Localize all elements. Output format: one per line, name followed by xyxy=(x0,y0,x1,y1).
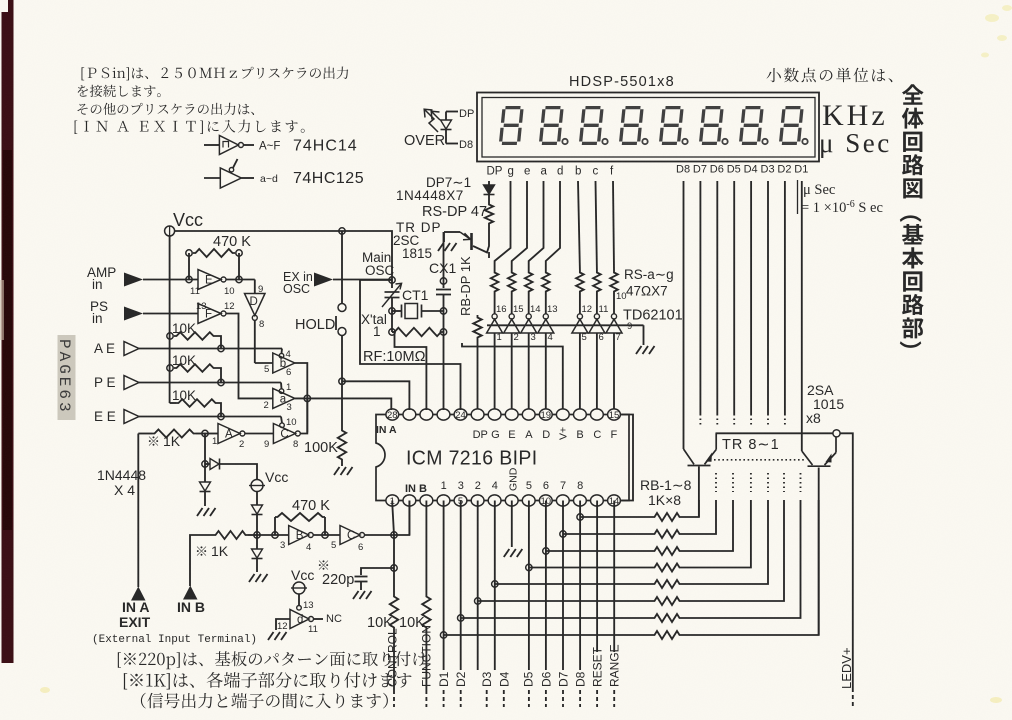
terminal IN A EXIT xyxy=(131,587,146,601)
wire DP diode to RS-DP xyxy=(488,195,490,202)
wire 10K-2 right xyxy=(216,368,221,383)
wire RB-7 right xyxy=(682,500,801,618)
wire digit common D6 dotted tail xyxy=(716,414,718,425)
IC pin 20 (top) xyxy=(522,409,535,420)
display digit 3 decimal point xyxy=(602,139,607,144)
gate d enable bubble xyxy=(297,606,302,611)
wire 220p to ground xyxy=(360,582,362,591)
wire gate D output down xyxy=(254,320,256,363)
wire RS-b to buffer xyxy=(579,294,581,314)
junction 470K-2 left xyxy=(272,532,278,538)
gate C2 bubble xyxy=(360,533,365,538)
vertical title char 路 xyxy=(902,154,924,175)
vertical title char 体 xyxy=(902,108,924,129)
legend inverter bubble xyxy=(238,143,243,148)
gate F 74HC14 xyxy=(198,304,221,324)
wire 470K left leg xyxy=(188,253,190,280)
dash tail D4 xyxy=(503,690,505,707)
TD62101 driver G triangle xyxy=(487,319,503,333)
ground gate d xyxy=(268,632,287,640)
wire hold column lower xyxy=(341,336,343,429)
wire Vcc pull column xyxy=(169,236,171,403)
resistor RB-1 1K xyxy=(652,513,682,521)
junction 220p node xyxy=(391,565,397,571)
wire RANGE column xyxy=(613,501,615,653)
wire TD62101 C output to IC pin xyxy=(596,333,598,410)
dash tail RESET xyxy=(596,690,598,707)
display digit 8 decimal point xyxy=(802,139,807,144)
junction diode node xyxy=(202,461,208,467)
HOLD switch top contact xyxy=(338,304,346,312)
display digit 5 "8" xyxy=(661,108,683,144)
wire GND pin column xyxy=(511,501,513,548)
resistor RB-5 1K xyxy=(652,580,682,588)
wire PS to gate F xyxy=(143,313,198,315)
TD62101 driver E triangle xyxy=(504,319,520,333)
bottom note line3 xyxy=(141,693,388,709)
OVER led anode stub xyxy=(445,112,447,121)
bottom note line1 xyxy=(118,651,426,669)
wire gate d output NC xyxy=(313,618,323,620)
wire segment g from display xyxy=(495,181,511,270)
wire RB-1 left xyxy=(580,516,652,518)
wire RESET column xyxy=(596,501,598,653)
wire segment e from display xyxy=(512,181,527,270)
dotted base stub x=716 xyxy=(715,473,717,492)
dotted line TR8 to TR1 xyxy=(714,459,804,461)
wire segment c from display xyxy=(596,181,597,270)
wire control resistor tail xyxy=(393,630,395,690)
wire digit common D5 dotted tail xyxy=(733,414,735,425)
wire control column xyxy=(393,535,395,594)
vertical title char 本 xyxy=(902,247,924,268)
wire gate A to gate C xyxy=(245,433,274,435)
resistor RS-b 47ohm xyxy=(576,270,584,294)
IC pin 12 (bottom) xyxy=(574,495,587,506)
wire TD62101 E output to IC pin xyxy=(511,333,513,410)
junction 10K-1 left xyxy=(167,333,173,339)
resistor RB-3 1K xyxy=(652,547,682,555)
wire RB-1 right xyxy=(682,500,699,517)
display digit 5 decimal point xyxy=(682,139,687,144)
wire gate D to gate b xyxy=(255,362,273,364)
wire RB-6 left xyxy=(478,600,652,602)
wire hold column upper xyxy=(341,231,343,304)
junction RB-7 at column xyxy=(458,615,464,621)
vertical title char 全 xyxy=(902,84,924,105)
wire digit common D1 column xyxy=(801,181,803,451)
junction RB-4 at column xyxy=(526,564,532,570)
junction Vcc rail / hold line xyxy=(339,228,345,234)
wire gate B to gate C2 xyxy=(313,534,340,536)
legend buffer enable bubble xyxy=(229,168,233,172)
junction gate E input xyxy=(186,276,192,282)
junction RB-6 at column xyxy=(475,598,481,604)
gate a enable bubble xyxy=(279,389,284,394)
junction 10K-3 to EE xyxy=(218,413,224,419)
vertical title char 回 xyxy=(903,132,922,152)
IC pin 15 (top) xyxy=(608,409,621,420)
wire D3 column xyxy=(477,501,479,671)
resistor 10K-2 xyxy=(174,364,216,372)
wire CX1 to xtal right node xyxy=(443,295,445,333)
wire INB terminal column xyxy=(190,535,213,586)
IC pin 10 (bottom) xyxy=(539,495,552,506)
wire RB-4 left xyxy=(529,567,652,569)
resistor 10K-1 xyxy=(174,332,216,340)
gate B bubble xyxy=(308,533,313,538)
IC pin 13 (bottom) xyxy=(591,495,604,506)
dotted base stub x=768 xyxy=(767,473,769,492)
wire RS-e to buffer xyxy=(511,294,513,314)
IC pin 9 (bottom) xyxy=(522,495,535,506)
dash tail D6 xyxy=(545,690,547,707)
wire gate d input from ground xyxy=(276,619,290,630)
wire segment f from display xyxy=(613,181,614,270)
legend buffer output wire xyxy=(241,177,254,179)
vertical title char paren ） xyxy=(900,341,922,348)
gate C 74HC14 xyxy=(273,424,295,444)
IC pin 3 (bottom) xyxy=(420,495,433,506)
vertical title char 回 xyxy=(903,271,922,291)
dash tail D8 xyxy=(579,690,581,707)
TD62101 driver A triangle xyxy=(521,319,537,333)
OVER led cathode stub xyxy=(445,130,447,144)
PAGE63 page marker highlight xyxy=(58,335,76,420)
wire function column top xyxy=(425,501,427,595)
gate d bubble xyxy=(309,617,314,622)
wire 1K to junction xyxy=(196,433,205,435)
resistor RB-8 1K xyxy=(652,631,682,639)
IC pin 16 (top) xyxy=(591,409,604,420)
wire RB-7 left xyxy=(461,617,652,619)
TD62101 driver B bubble xyxy=(577,314,582,319)
junction 470K right top xyxy=(236,250,242,256)
TR8 base wire to RB-1 xyxy=(698,467,700,518)
TD62101 driver C triangle xyxy=(589,319,605,333)
resistor RB-4 1K xyxy=(652,564,682,572)
display digit 2 "8" xyxy=(541,108,563,144)
vertical title char 基 xyxy=(902,224,924,245)
OVER led arrows xyxy=(424,109,438,132)
dash tail D2 xyxy=(460,690,462,707)
wire 10K-3 right xyxy=(218,403,221,417)
resistor RS-d 47ohm xyxy=(542,270,550,294)
note line1 PSin xyxy=(82,67,349,81)
TD62101 driver E bubble xyxy=(509,314,514,319)
diode 1N4448 b xyxy=(200,482,211,491)
dash tail RANGE xyxy=(613,690,615,707)
wire AE row xyxy=(139,348,282,350)
resistor 10K function xyxy=(422,594,430,630)
gate A bubble xyxy=(240,431,245,436)
junction RF right xyxy=(440,329,446,335)
dash tail FUNCTION xyxy=(425,690,427,707)
bottom note line2 xyxy=(124,672,412,690)
wire TD62101 B output to IC pin xyxy=(579,333,581,410)
IC pin 17 (top) xyxy=(574,409,587,420)
wire Vcc to gate d enable xyxy=(298,594,300,606)
display digit 3 "8" xyxy=(581,108,603,144)
AE input terminal xyxy=(124,342,139,356)
junction RB-1 at column xyxy=(577,514,583,520)
wire digit common D7 column xyxy=(699,181,701,414)
wire junction to diode d xyxy=(256,535,258,549)
junction 470K-2 right xyxy=(322,532,328,538)
wire RB-DP to IC pin 23 xyxy=(477,347,479,411)
junction main osc node xyxy=(389,277,395,283)
IC pin 24 (top) xyxy=(454,409,467,420)
wire diode d to ground xyxy=(256,559,258,572)
IC pin 5 (bottom) xyxy=(454,495,467,506)
TR DP base bracket xyxy=(444,231,460,233)
TR DP base arrow xyxy=(460,232,471,240)
wire Vcc rail xyxy=(175,231,392,280)
wire digit common D3 dotted tail xyxy=(767,414,769,425)
IC pin 1 (bottom) xyxy=(386,495,399,506)
scan left black bar xyxy=(2,0,14,663)
wire LEDV+ dashed tail xyxy=(852,688,854,707)
resistor RB-6 1K xyxy=(652,597,682,605)
wire gate E output xyxy=(226,279,255,281)
resistor RS-g 47ohm xyxy=(491,270,499,294)
IC pin 11 (bottom) xyxy=(556,495,569,506)
wire RS-f to buffer xyxy=(613,294,615,314)
transistor TR8 2SA1015 xyxy=(684,433,717,465)
wire segment b from display xyxy=(578,181,580,270)
vertical title char 部 xyxy=(902,317,923,338)
legend inverter output wire xyxy=(243,144,254,146)
wire TD62101 D output to IC pin xyxy=(545,333,547,410)
vertical title char paren （ xyxy=(900,215,922,222)
wire CX1 node to IC pin 25 xyxy=(443,332,445,410)
note line2 xyxy=(78,85,161,97)
dash tail D1 xyxy=(443,690,445,707)
display digit 4 decimal point xyxy=(642,139,647,144)
junction RF left xyxy=(389,329,395,335)
wire digit common D6 column xyxy=(716,181,718,414)
junction RB-2 at column xyxy=(560,531,566,537)
vertical title char 図 xyxy=(903,178,922,198)
OVER led top wire xyxy=(446,111,458,113)
wire IC pin2 to signal line xyxy=(408,501,410,536)
wire RB-2 left xyxy=(563,533,652,535)
display digit 2 decimal point xyxy=(562,139,567,144)
wire junction to gate A xyxy=(205,433,218,435)
gate E bubble xyxy=(221,277,226,282)
gate F bubble xyxy=(221,311,226,316)
junction control node xyxy=(391,532,397,538)
wire 470K right leg xyxy=(238,253,240,280)
resistor RS-a 47ohm xyxy=(525,270,533,294)
legend inverter input wire xyxy=(204,144,219,146)
diode 1N4448 a xyxy=(210,459,219,470)
wire D6 column xyxy=(545,501,547,671)
wire 220p branch xyxy=(361,568,394,575)
wire RB-4 right xyxy=(682,500,751,568)
junction 10K-1 to AE xyxy=(218,345,224,351)
IC pin 18 (top) xyxy=(556,409,569,420)
resistor 1K input B xyxy=(213,531,248,539)
gate b 74HC125 xyxy=(273,353,295,373)
wire 10K-3 left xyxy=(170,402,176,404)
wire segment d from display xyxy=(546,181,560,270)
dash tail D5 xyxy=(528,690,530,707)
wire AMP to gate E xyxy=(143,279,198,281)
wire RF to IC pin 26 xyxy=(392,332,426,410)
wire PE row xyxy=(139,382,281,384)
wire RB-2 right xyxy=(682,500,716,534)
transistor TR DP body xyxy=(470,233,473,250)
junction gate E out xyxy=(236,276,242,282)
IC pin 21 (top) xyxy=(505,409,518,420)
IC pin 2 (bottom) xyxy=(403,495,416,506)
IC pin 22 (top) xyxy=(488,409,501,420)
resistor 1K input A xyxy=(152,430,196,438)
wire diode b to ground xyxy=(204,492,206,506)
capacitor 220p xyxy=(355,576,368,578)
TD62101 common rail xyxy=(487,325,644,345)
wire digit common D3 column xyxy=(767,181,769,414)
gate d 74HC125 xyxy=(290,610,309,629)
TR DP collector wire xyxy=(473,226,489,253)
gate C enable bubble xyxy=(280,423,285,428)
gate E 74HC14 xyxy=(198,270,221,290)
transistor TR1 2SA1015 xyxy=(802,437,836,466)
resistor RS-DP 47 xyxy=(485,202,493,226)
wire 10K-1 right xyxy=(216,336,221,349)
wire LEDV+ drop xyxy=(840,433,853,688)
label 220p star xyxy=(319,560,328,569)
wire diode a to Vcc tap xyxy=(220,464,257,479)
display HDSP-5501x8 outer box xyxy=(477,93,819,162)
wire RB-3 left xyxy=(546,550,652,552)
ground 220p xyxy=(353,591,372,599)
display digit 6 "8" xyxy=(701,108,723,144)
resistor 470K-1 xyxy=(193,249,235,257)
wire to IC pin 27 xyxy=(342,381,409,410)
wire digit common D4 dotted tail xyxy=(750,414,752,425)
wire osc node down to RF xyxy=(391,311,393,332)
Vcc supply circle xyxy=(165,226,175,236)
resistor RS-f 47ohm xyxy=(610,270,618,294)
TD62101 driver D triangle xyxy=(538,319,554,333)
junction 470K left top xyxy=(186,250,192,256)
TD62101 driver C bubble xyxy=(594,314,599,319)
wire IC pin1 column xyxy=(392,501,394,536)
wire RS-a to buffer xyxy=(528,294,530,314)
junction RB-5 at column xyxy=(492,581,498,587)
display digit 7 decimal point xyxy=(762,139,767,144)
junction hold line / pin27 line xyxy=(339,378,345,384)
junction 10K-2 left xyxy=(167,365,173,371)
wire PE to gate a enable xyxy=(280,383,283,389)
wire RB-5 left xyxy=(495,583,652,585)
resistor 100K xyxy=(338,428,346,462)
ground TR DP xyxy=(438,243,457,251)
TR DP ground stem xyxy=(443,232,445,242)
wire Vcc tap to diode c xyxy=(256,492,258,506)
terminal IN B xyxy=(183,586,198,600)
gate B 74HC14 xyxy=(289,526,309,545)
scan noise overlay xyxy=(0,0,1,1)
resistor RF 10Mohm xyxy=(392,328,444,336)
wire D8 column xyxy=(579,501,581,671)
IC ICM7216BIPI body xyxy=(376,415,629,501)
wire osc node to CT1 xyxy=(391,280,393,288)
IC pin 7 (bottom) xyxy=(488,495,501,506)
wire xtal left lead xyxy=(392,310,401,312)
vertical title char 路 xyxy=(902,294,924,315)
diode 1N4448 c xyxy=(252,505,263,514)
wire INA terminal column xyxy=(137,434,139,588)
scan yellow speckles top right xyxy=(981,5,1012,58)
IC pin 25 (top) xyxy=(437,409,450,420)
header small-decimal note xyxy=(767,68,893,83)
TD62101 driver F triangle xyxy=(606,319,622,333)
display digit 7 "8" xyxy=(741,108,763,144)
wire segment a from display xyxy=(529,181,544,270)
dash tail D7 xyxy=(562,690,564,707)
junction xtal right xyxy=(440,308,446,314)
wire digit common D2 column xyxy=(784,181,786,414)
wire into gate D xyxy=(254,280,256,294)
wire 100K to ground xyxy=(341,462,343,466)
TD62101 driver A bubble xyxy=(526,314,531,319)
footnote separator bar xyxy=(797,180,799,214)
wire D1 column xyxy=(443,501,445,671)
wire D4 column xyxy=(494,501,496,671)
junction RB-3 at column xyxy=(543,548,549,554)
TR1 base wire to RB-8 xyxy=(818,468,820,636)
legend buffer input wire xyxy=(204,177,220,179)
wire EE to gate C enable xyxy=(281,417,282,423)
junction 1K / diode node xyxy=(202,430,208,436)
EE input terminal xyxy=(124,410,139,424)
capacitor CX1 xyxy=(436,289,451,291)
wire 1K-B to junction xyxy=(248,534,257,536)
OVER led diode xyxy=(441,120,452,129)
gate D 74HC14 (pointing down) xyxy=(245,294,266,316)
resistor 10K control xyxy=(390,594,398,630)
wire gate F output xyxy=(226,314,273,399)
transistor collector rail xyxy=(716,432,834,434)
wire AE to gate b enable xyxy=(281,349,284,354)
wire diode node to diode b xyxy=(204,464,206,482)
wire osc to IC pin 24 xyxy=(360,280,461,410)
gate C2 74HC14 xyxy=(340,526,360,545)
label 1K second xyxy=(197,546,206,555)
junction CX1 top xyxy=(440,278,446,284)
wire digit common D7 dotted tail xyxy=(699,414,701,425)
diode 1N4448 d xyxy=(252,549,263,558)
PS input arrow xyxy=(124,307,143,321)
wire xtal right lead xyxy=(422,310,444,312)
TD62101 driver D bubble xyxy=(543,314,548,319)
LEDV+ terminal circle xyxy=(833,430,840,437)
wire digit common D2 dotted tail xyxy=(784,414,786,425)
diode DP 1N4448 xyxy=(484,185,495,194)
dotted base stub x=733 xyxy=(732,473,734,492)
Vcc tap circle (crossed) xyxy=(251,480,263,492)
crystal Xtal1 symbol xyxy=(401,305,403,318)
wire D7 column xyxy=(562,501,564,671)
wire 470K-2 right leg xyxy=(324,517,326,535)
wire 470K-2 left leg xyxy=(274,517,276,535)
wire V+ rail xyxy=(462,343,563,410)
wire DP segment from display xyxy=(488,181,490,185)
trimmer capacitor CT1 xyxy=(385,291,400,293)
